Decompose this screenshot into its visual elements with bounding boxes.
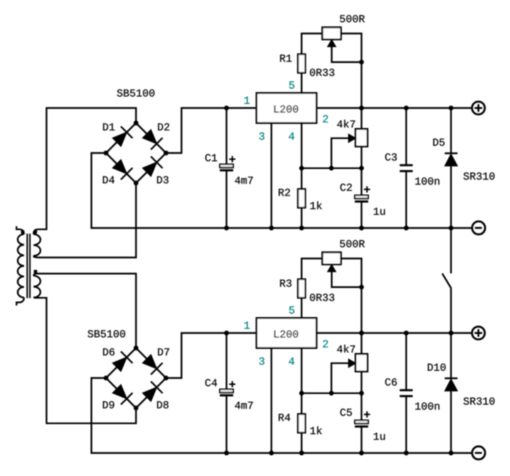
- capacitor C1 value 4m7: [235, 177, 253, 184]
- node bridge1 top: [134, 121, 139, 126]
- wire P1 right end down to pin2 rail: [341, 34, 362, 109]
- resistor R2: [298, 189, 305, 208]
- potentiometer P3 500R body: [322, 252, 341, 264]
- capacitor C6 leads: [405, 333, 407, 453]
- node pin3 ground 2: [269, 451, 274, 456]
- diode D3 label: [157, 176, 168, 183]
- diode D6 label: [103, 348, 114, 355]
- node bridge2 right: [164, 376, 169, 381]
- transformer T1 primary winding: [17, 226, 25, 305]
- wire bridge1 negative to ground rail: [91, 153, 472, 228]
- node P3 wiper junction: [359, 285, 364, 290]
- node C5 ground 2: [359, 451, 364, 456]
- capacitor C4 electrolytic: [220, 381, 236, 395]
- diode D8 label: [157, 401, 168, 408]
- node sense link pin4: [299, 166, 304, 171]
- diode D1 label: [103, 123, 114, 130]
- pin 1 label: [244, 97, 249, 104]
- wire P4 wiper: [331, 363, 349, 393]
- node bridge1 left: [104, 151, 109, 156]
- wire bridge1 positive to L200 U1 pin 1: [166, 108, 257, 153]
- pin 5 label U2: [289, 306, 294, 313]
- capacitor C6 label: [385, 378, 397, 385]
- wire C5 bottom to ground 2: [361, 427, 363, 454]
- capacitor C4 label: [205, 379, 217, 386]
- capacitor C6: [400, 390, 413, 396]
- wire sense link 2: [302, 392, 362, 394]
- resistor R4: [298, 414, 305, 433]
- transformer T1 secondary winding 2: [34, 270, 41, 298]
- node pin2 rail2 500R: [359, 331, 364, 336]
- wire sense link: [302, 167, 362, 169]
- wire bridge2 positive to L200 U2 pin 1: [166, 333, 257, 378]
- potentiometer P1 wiper arrow: [328, 40, 336, 47]
- wire L200 pin 2 to positive output: [317, 107, 472, 109]
- diode D9 label: [103, 401, 114, 408]
- pin 2 label: [323, 115, 328, 122]
- wire L200 pin 4 down: [301, 123, 303, 189]
- diode D7: [136, 348, 166, 378]
- capacitor C5 electrolytic: [355, 411, 370, 426]
- node C6 ground 2: [404, 451, 409, 456]
- capacitor C4 value 4m7: [235, 402, 253, 409]
- node sense link2 pin4: [299, 391, 304, 396]
- wire C2 bottom to ground: [361, 202, 363, 229]
- wire pin2 rail to P2 top: [361, 108, 363, 129]
- wire secondary2 bottom to bridge2 AC bottom: [34, 298, 137, 424]
- resistor R4 label: [279, 414, 290, 421]
- diode D3: [136, 153, 166, 183]
- diode D10 label: [428, 364, 446, 371]
- resistor R2 value 1k: [310, 201, 322, 209]
- capacitor C3: [400, 165, 413, 171]
- wire secondary1 bottom to bridge AC bottom: [34, 183, 137, 258]
- node C3 ground: [404, 226, 409, 231]
- capacitor C2 electrolytic: [355, 186, 370, 201]
- diode D2 label: [158, 123, 169, 130]
- diode D5 value SR310: [464, 172, 495, 179]
- node sense link2 wiper: [329, 391, 334, 396]
- diode D1: [106, 123, 136, 153]
- switch S1 between supplies: [442, 228, 451, 333]
- wire P3 wiper to right end: [332, 271, 362, 287]
- capacitor C1 electrolytic: [220, 156, 236, 170]
- node bridge2 left: [104, 376, 109, 381]
- pin 4 label U2: [289, 358, 294, 365]
- diode D5 label: [433, 139, 444, 146]
- node D5 ground: [449, 226, 454, 231]
- diode D7 label: [158, 348, 169, 355]
- node sense link wiper: [329, 166, 334, 171]
- resistor R4 value 1k: [310, 426, 322, 434]
- node pin2 rail2 D10: [449, 331, 454, 336]
- wire secondary2 top to bridge2 AC top: [34, 274, 137, 348]
- potentiometer P4 label 4k7: [337, 345, 355, 353]
- diode D10 leads: [450, 333, 452, 453]
- node P1 wiper junction: [359, 60, 364, 65]
- potentiometer P4 4k7 body: [356, 354, 368, 372]
- resistor R1: [298, 54, 305, 73]
- wire U2 pin 2 to positive output 2: [317, 332, 472, 334]
- resistor R3 value 0R33: [310, 294, 334, 301]
- capacitor C3 leads: [405, 108, 407, 228]
- wire P3 right end down to pin2 rail: [341, 259, 362, 334]
- terminal negative output 2: [472, 446, 485, 459]
- capacitor C2 value 1u: [374, 208, 385, 215]
- node R2 ground: [299, 226, 304, 231]
- potentiometer P1 500R body: [322, 27, 341, 39]
- pin 4 label: [289, 133, 294, 140]
- capacitor C4 leads: [226, 333, 228, 453]
- wire P2 wiper: [331, 138, 349, 168]
- potentiometer P4 wiper arrow: [349, 359, 356, 367]
- node bridge1 right: [164, 151, 169, 156]
- diode D10 value SR310: [464, 397, 495, 404]
- capacitor C6 value 100n: [415, 402, 439, 409]
- potentiometer P2 label 4k7: [337, 120, 355, 128]
- wire U2 pin 4 down: [301, 348, 303, 414]
- pin 3 label: [259, 132, 264, 139]
- transformer T1 secondary winding 1: [34, 230, 41, 256]
- terminal positive output 2: [472, 327, 485, 340]
- node bridge2 top: [134, 346, 139, 351]
- potentiometer P3 wiper arrow: [328, 265, 336, 272]
- resistor R1 label: [280, 55, 291, 62]
- capacitor C2 label: [340, 184, 351, 191]
- capacitor C3 value 100n: [415, 177, 439, 184]
- capacitor C1 label: [205, 154, 217, 161]
- regulator U1 L200: [257, 93, 317, 123]
- node C1 top: [224, 106, 229, 111]
- diode D8: [136, 378, 166, 408]
- node sense link pot bottom: [359, 166, 364, 171]
- node pin2 rail 500R: [359, 106, 364, 111]
- diode D5 leads: [450, 108, 452, 228]
- wire P4 bottom to C5: [361, 372, 363, 421]
- diode D9: [106, 378, 136, 408]
- wire L200 pin5 to R1: [301, 73, 303, 93]
- node bridge2 bottom: [134, 406, 139, 411]
- wire pin2 rail2 to P4 top: [361, 333, 363, 354]
- terminal positive output 1: [472, 102, 485, 115]
- node R4 ground 2: [299, 451, 304, 456]
- wire R2 bottom to ground: [301, 208, 303, 228]
- diode D4: [106, 153, 136, 183]
- pin 1 label U2: [244, 322, 249, 329]
- pin 2 label U2: [323, 340, 328, 347]
- node C4 bottom: [224, 451, 229, 456]
- wire bridge2 negative to ground rail 2: [91, 378, 472, 453]
- potentiometer P3 label 500R: [340, 240, 365, 247]
- bridge rectifier B1 label SB5100: [117, 89, 154, 96]
- capacitor C5 value 1u: [374, 433, 385, 440]
- node bridge1 bottom: [134, 181, 139, 186]
- transformer T1 core: [27, 234, 30, 299]
- node C1 bottom: [224, 226, 229, 231]
- node pin2 rail D5: [449, 106, 454, 111]
- capacitor C5 label: [340, 409, 352, 416]
- potentiometer P2 4k7 body: [356, 129, 368, 147]
- pin 5 label: [289, 81, 294, 88]
- diode D5: [445, 153, 458, 166]
- diode D10: [445, 378, 458, 391]
- regulator U2 L200: [257, 318, 317, 348]
- node pin2 rail2 C6: [404, 331, 409, 336]
- potentiometer P2 wiper arrow: [349, 134, 356, 142]
- node C2 ground: [359, 226, 364, 231]
- node C4 top: [224, 331, 229, 336]
- wire secondary1 top to bridge AC top, node feed: [34, 108, 137, 234]
- wire P1 wiper to right end: [332, 46, 362, 62]
- potentiometer P1 label 500R: [340, 15, 365, 22]
- diode D6: [106, 348, 136, 378]
- node pin2 rail C3: [404, 106, 409, 111]
- wire U2 pin5 to R3: [301, 298, 303, 318]
- node pin3 ground: [269, 226, 274, 231]
- capacitor C3 label: [385, 153, 397, 160]
- diode D4 label: [103, 176, 114, 183]
- wire P2 bottom to C2: [361, 147, 363, 196]
- resistor R2 label: [279, 189, 290, 196]
- diode D2: [136, 123, 166, 153]
- node D10 ground 2: [449, 451, 454, 456]
- resistor R3: [298, 279, 305, 298]
- wire R3 top to potentiometer P3: [302, 259, 323, 280]
- resistor R1 value 0R33: [310, 69, 334, 76]
- wire R1 top to potentiometer P1: [302, 34, 323, 55]
- pin 3 label U2: [259, 357, 264, 364]
- capacitor C1 leads: [226, 108, 228, 228]
- wire U2 pin 3 to ground 2: [270, 348, 272, 453]
- terminal negative output 1: [472, 221, 485, 234]
- bridge rectifier B2 label SB5100: [88, 330, 125, 337]
- wire L200 pin 3 to ground: [270, 123, 272, 228]
- wire R4 bottom to ground 2: [301, 433, 303, 453]
- node sense link2 pot bottom: [359, 391, 364, 396]
- resistor R3 label: [280, 280, 291, 287]
